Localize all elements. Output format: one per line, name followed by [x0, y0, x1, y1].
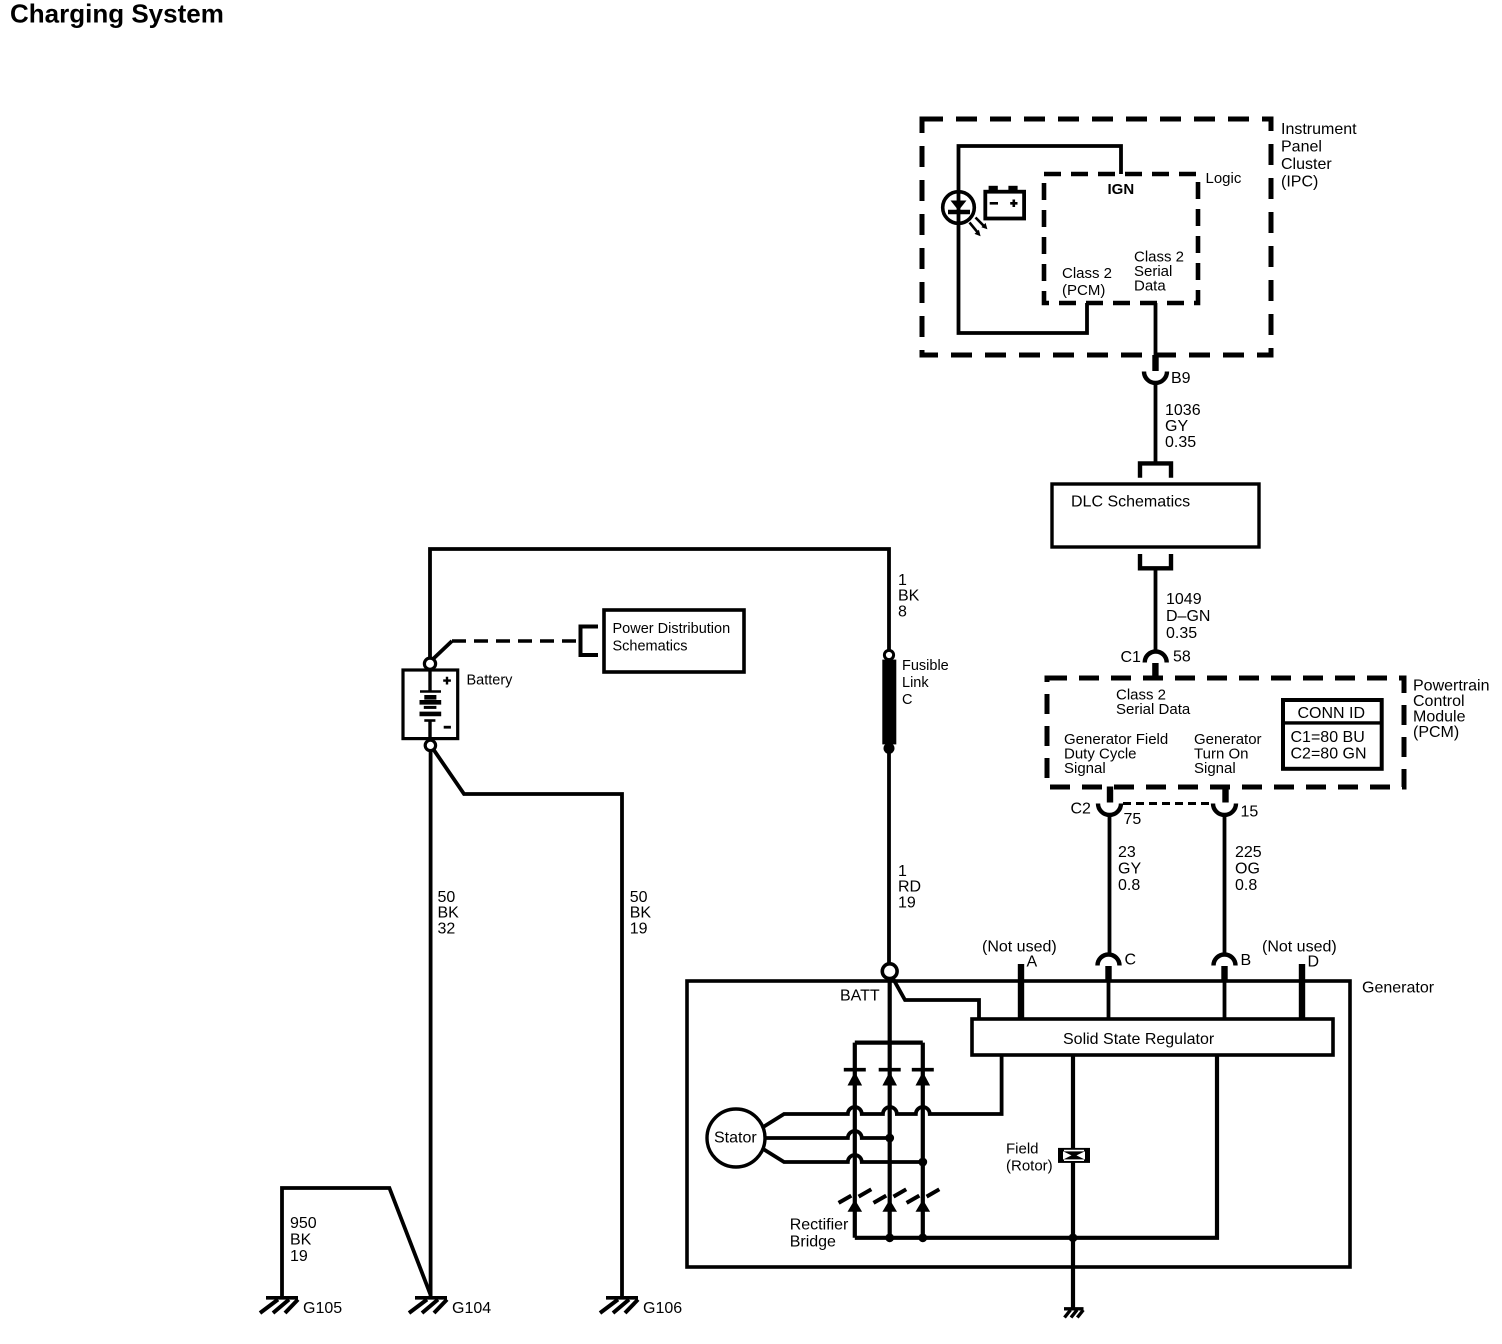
wire IGN feed from LED top — [959, 146, 1122, 192]
svg-text:C1=80 BU: C1=80 BU — [1291, 729, 1365, 746]
svg-text:0.35: 0.35 — [1165, 434, 1196, 451]
box Powertrain Control Module (PCM) dashed — [1047, 678, 1404, 787]
connector pin C — [1098, 955, 1120, 966]
wire 225 OG 0.8 — [1223, 815, 1227, 955]
svg-text:Link: Link — [902, 675, 929, 691]
svg-text:0.8: 0.8 — [1118, 877, 1140, 894]
svg-text:(Not used): (Not used) — [1262, 939, 1337, 956]
svg-text:Signal: Signal — [1064, 760, 1106, 777]
svg-text:B9: B9 — [1171, 370, 1191, 387]
svg-text:DLC Schematics: DLC Schematics — [1071, 494, 1190, 511]
ground G106 — [600, 1298, 638, 1313]
svg-text:Stator: Stator — [714, 1130, 757, 1147]
svg-text:BATT: BATT — [840, 988, 880, 1005]
svg-text:BK: BK — [438, 905, 460, 922]
svg-text:C2: C2 — [1071, 801, 1092, 818]
svg-text:Powertrain: Powertrain — [1413, 678, 1489, 695]
svg-text:Schematics: Schematics — [613, 639, 688, 655]
svg-text:1: 1 — [898, 863, 907, 880]
connector C2 pin 75 — [1107, 787, 1113, 803]
box Instrument Panel Cluster dashed — [922, 119, 1271, 355]
svg-text:1036: 1036 — [1165, 402, 1201, 419]
svg-text:Serial Data: Serial Data — [1116, 701, 1191, 718]
connector C1 pin 58 — [1145, 652, 1167, 663]
wire battery positive to fusible link top — [430, 549, 889, 658]
pin A (not used) — [1018, 964, 1024, 1019]
svg-text:C: C — [902, 692, 912, 708]
junction dot bottom rail center — [885, 1233, 894, 1242]
svg-text:C1: C1 — [1121, 649, 1142, 666]
rectifier bridge top rail — [855, 1040, 923, 1044]
svg-text:1049: 1049 — [1166, 591, 1202, 608]
svg-text:19: 19 — [898, 894, 916, 911]
connector B9 — [1152, 355, 1158, 371]
svg-text:Bridge: Bridge — [790, 1234, 836, 1251]
dashed reference wire battery to power distribution schematics — [433, 641, 453, 660]
box Power Distribution Schematics — [604, 610, 744, 672]
svg-text:Generator: Generator — [1362, 980, 1435, 997]
svg-text:Instrument: Instrument — [1281, 121, 1357, 138]
pin D (not used) — [1299, 964, 1305, 1019]
node battery B+ terminal circle — [424, 658, 435, 669]
svg-text:(Not used): (Not used) — [982, 939, 1057, 956]
svg-text:Battery: Battery — [467, 673, 514, 689]
bracket above DLC box — [1140, 463, 1171, 477]
battery (vehicle battery) — [403, 670, 458, 741]
svg-text:D–GN: D–GN — [1166, 608, 1210, 625]
svg-text:BK: BK — [630, 905, 652, 922]
box Logic dashed — [1044, 174, 1198, 303]
svg-text:(PCM): (PCM) — [1062, 282, 1105, 299]
svg-text:32: 32 — [438, 920, 456, 937]
connector pin 15 — [1222, 787, 1228, 803]
svg-text:19: 19 — [630, 920, 648, 937]
box Solid State Regulator — [972, 1019, 1333, 1055]
wire stator phase 2 (middle) — [765, 1131, 890, 1138]
svg-text:19: 19 — [290, 1248, 308, 1265]
wire LED to Class 2 (PCM) — [959, 223, 1088, 333]
fusible link C — [884, 650, 893, 659]
connector same-connector dashed link — [1123, 802, 1210, 805]
svg-text:Power Distribution: Power Distribution — [613, 621, 731, 637]
zener Z1 (left, lower) — [839, 1189, 872, 1203]
svg-text:OG: OG — [1235, 861, 1260, 878]
diode D1 (left, upper) — [844, 1068, 866, 1072]
svg-text:GY: GY — [1118, 861, 1141, 878]
svg-text:Fusible: Fusible — [902, 658, 949, 674]
svg-text:B: B — [1241, 952, 1252, 969]
svg-text:Panel: Panel — [1281, 139, 1322, 156]
junction dot phase 3 / bridge right leg — [918, 1158, 927, 1167]
wire battery negative to G104 (50 BK 32) — [429, 751, 433, 1297]
svg-text:50: 50 — [438, 889, 456, 906]
wire 1049 D-GN 0.35 — [1154, 569, 1158, 652]
ground G105 — [260, 1298, 298, 1313]
svg-text:Rectifier: Rectifier — [790, 1217, 849, 1234]
svg-text:RD: RD — [898, 879, 921, 896]
svg-text:75: 75 — [1124, 811, 1142, 828]
svg-text:Signal: Signal — [1194, 760, 1236, 777]
svg-text:A: A — [1027, 954, 1038, 971]
svg-text:50: 50 — [630, 889, 648, 906]
svg-text:(Rotor): (Rotor) — [1006, 1158, 1053, 1175]
wire 950 BK 19 from G105 to G104 junction — [282, 1188, 431, 1297]
svg-text:15: 15 — [1241, 804, 1259, 821]
wire 23 GY 0.8 — [1108, 815, 1112, 955]
rectifier bridge bottom rail to regulator return — [855, 1056, 1217, 1238]
svg-text:IGN: IGN — [1108, 181, 1135, 198]
svg-text:(PCM): (PCM) — [1413, 724, 1459, 741]
svg-text:Control: Control — [1413, 693, 1465, 710]
svg-text:Logic: Logic — [1206, 170, 1242, 187]
wire BATT node down to rectifier bridge — [888, 979, 892, 1043]
connector pin B — [1214, 955, 1236, 966]
wire 1 RD 19 fusible link to BATT — [887, 752, 891, 963]
ground generator field — [1064, 1309, 1084, 1318]
rectifier bridge center leg — [888, 1043, 892, 1238]
svg-text:Class 2: Class 2 — [1062, 265, 1112, 282]
svg-text:G105: G105 — [303, 1300, 342, 1317]
junction dot bottom rail right — [918, 1233, 927, 1242]
box DLC Schematics — [1052, 484, 1259, 547]
wire BATT node to regulator top — [893, 978, 979, 1019]
wire Class 2 Serial Data down to B9 — [1154, 303, 1158, 356]
svg-text:Solid State Regulator: Solid State Regulator — [1063, 1031, 1215, 1048]
ground G104 — [409, 1298, 447, 1313]
svg-text:Charging System: Charging System — [10, 0, 224, 29]
wire regulator to field rotor and ground — [1071, 1056, 1075, 1308]
junction dot field wire / bridge return rail — [1069, 1233, 1078, 1242]
rectifier bridge right leg — [921, 1043, 925, 1238]
svg-text:58: 58 — [1173, 649, 1191, 666]
bracket below DLC box — [1140, 554, 1171, 568]
junction dot phase 2 / bridge center leg — [885, 1134, 894, 1143]
wire stator phase 3 (bottom) — [764, 1150, 923, 1163]
svg-text:Cluster: Cluster — [1281, 156, 1332, 173]
stator — [707, 1109, 765, 1167]
node battery B- terminal circle — [425, 740, 435, 750]
svg-text:G106: G106 — [643, 1300, 682, 1317]
rectifier bridge left leg — [853, 1043, 857, 1238]
svg-text:8: 8 — [898, 603, 907, 620]
svg-text:C: C — [1125, 952, 1137, 969]
wire 1036 GY 0.35 — [1154, 384, 1158, 464]
telltale battery icon — [985, 186, 1024, 219]
diode D3 (right, upper) — [912, 1068, 934, 1072]
svg-text:C2=80 GN: C2=80 GN — [1291, 746, 1367, 763]
box Generator — [687, 981, 1350, 1267]
wire stator phase 1 (top) to regulator — [764, 1056, 1002, 1127]
svg-text:Data: Data — [1134, 278, 1166, 295]
diode D2 (center, upper) — [879, 1068, 901, 1072]
svg-text:BK: BK — [290, 1232, 312, 1249]
wire battery negative to G106 (50 BK 19) — [434, 750, 623, 1298]
LED charge indicator — [943, 192, 975, 224]
svg-text:0.35: 0.35 — [1166, 625, 1197, 642]
zener Z3 (right, lower) — [907, 1189, 940, 1203]
svg-text:GY: GY — [1165, 418, 1188, 435]
svg-text:Module: Module — [1413, 709, 1466, 726]
svg-text:23: 23 — [1118, 844, 1136, 861]
svg-text:CONN ID: CONN ID — [1298, 705, 1366, 722]
svg-text:1: 1 — [898, 572, 907, 589]
svg-text:G104: G104 — [452, 1300, 491, 1317]
LED emission arrows — [970, 218, 985, 233]
node BATT terminal — [882, 964, 897, 979]
svg-text:(IPC): (IPC) — [1281, 174, 1318, 191]
svg-text:D: D — [1308, 954, 1320, 971]
svg-text:Field: Field — [1006, 1141, 1039, 1158]
field rotor symbol — [1058, 1148, 1090, 1163]
svg-text:950: 950 — [290, 1215, 317, 1232]
svg-text:225: 225 — [1235, 844, 1262, 861]
svg-text:BK: BK — [898, 588, 920, 605]
svg-text:0.8: 0.8 — [1235, 877, 1257, 894]
zener Z2 (center, lower) — [874, 1189, 907, 1203]
off-page bracket — [581, 627, 599, 656]
table CONN ID — [1283, 700, 1382, 769]
